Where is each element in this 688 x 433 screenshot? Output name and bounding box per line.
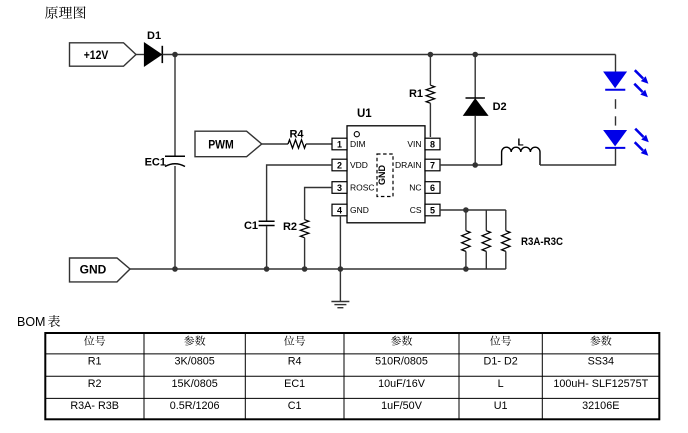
svg-text:R2: R2 <box>88 378 102 390</box>
svg-text:GND: GND <box>377 165 387 186</box>
wire left rail upper <box>174 55 176 157</box>
svg-text:VDD: VDD <box>350 160 368 170</box>
svg-text:GND: GND <box>80 263 107 277</box>
BOM table grid <box>45 333 659 419</box>
U1 pin 7 DRAIN <box>395 159 440 171</box>
svg-text:CS: CS <box>410 205 422 215</box>
svg-text:100uH- SLF12575T: 100uH- SLF12575T <box>553 378 648 390</box>
svg-text:5: 5 <box>430 206 435 216</box>
wire PWM to R4 <box>262 143 288 145</box>
svg-text:DRAIN: DRAIN <box>395 160 421 170</box>
BOM table label <box>17 315 60 329</box>
svg-text:10uF/16V: 10uF/16V <box>378 378 426 390</box>
node D2/drain line <box>472 162 478 168</box>
svg-text:D2: D2 <box>493 101 507 113</box>
LED D-string bottom (blue) <box>603 130 627 148</box>
LED1 emission arrows <box>633 69 648 97</box>
wire top rail <box>162 54 615 56</box>
node pin4/ground bus <box>338 266 344 272</box>
wire +12V to D1 <box>136 54 144 56</box>
node R3A/ground bus <box>463 266 469 272</box>
wire rail to D2 <box>474 55 476 99</box>
svg-text:PWM: PWM <box>208 138 234 152</box>
dashed wire LED string <box>615 99 617 125</box>
U1 pin 6 NC <box>409 182 440 194</box>
wire D2 to drain line <box>474 115 476 165</box>
svg-text:D1- D2: D1- D2 <box>484 356 518 368</box>
svg-text:C1: C1 <box>244 220 258 232</box>
svg-text:EC1: EC1 <box>284 378 305 390</box>
svg-text:L: L <box>517 138 523 149</box>
U1 pin 8 VIN <box>407 138 440 150</box>
resistor R3B <box>482 210 490 269</box>
svg-text:1uF/50V: 1uF/50V <box>381 400 423 412</box>
diode D1 <box>144 30 162 66</box>
node C1/ground bus <box>264 266 270 272</box>
wire pin 7 drain line <box>440 164 502 166</box>
svg-text:R3A-R3C: R3A-R3C <box>521 236 563 248</box>
svg-text:8: 8 <box>430 140 435 150</box>
wire rail to R1 <box>429 55 431 86</box>
svg-text:3K/0805: 3K/0805 <box>175 356 215 368</box>
resistor R1 <box>409 85 435 103</box>
wire pin 5 CS to R3 bank <box>440 209 506 211</box>
ground symbol <box>331 269 349 308</box>
node EC1/ground bus <box>172 266 178 272</box>
BOM header cells <box>84 336 612 346</box>
svg-text:1: 1 <box>337 140 342 150</box>
capacitor EC1 <box>145 156 185 168</box>
resistor R2 <box>283 220 309 238</box>
svg-text:R1: R1 <box>88 356 102 368</box>
svg-text:U1: U1 <box>494 400 508 412</box>
inductor L <box>502 138 540 165</box>
title 原理图 <box>45 6 86 19</box>
op-amp/IC U1 body <box>347 108 425 223</box>
LED D-string top (blue) <box>603 72 627 90</box>
wire ground bus <box>130 268 506 270</box>
wire R2 to ground bus <box>304 238 306 269</box>
svg-text:L: L <box>498 378 504 390</box>
svg-text:ROSC: ROSC <box>350 183 375 193</box>
net flag GND <box>70 258 131 282</box>
node CS/R3A <box>463 207 469 213</box>
wire R1 to pin 8 <box>429 103 431 137</box>
svg-text:R3A- R3B: R3A- R3B <box>70 400 119 412</box>
U1 pin 5 CS <box>410 204 440 216</box>
svg-text:2: 2 <box>337 161 342 171</box>
U1 pin 2 VDD <box>332 159 368 171</box>
svg-text:U1: U1 <box>357 108 372 120</box>
wire pin 3 to R2 <box>305 188 332 220</box>
net flag +12V <box>70 43 137 66</box>
svg-text:+12V: +12V <box>84 48 109 62</box>
svg-text:BOM: BOM <box>17 315 45 329</box>
svg-text:7: 7 <box>430 161 435 171</box>
node D2/top rail <box>472 52 478 58</box>
wire pin 2 to C1 <box>267 165 332 221</box>
svg-text:15K/0805: 15K/0805 <box>172 378 218 390</box>
svg-text:R2: R2 <box>283 221 297 233</box>
svg-text:32106E: 32106E <box>582 400 619 412</box>
svg-text:EC1: EC1 <box>145 157 166 169</box>
svg-text:VIN: VIN <box>407 139 421 149</box>
net flag PWM <box>195 131 262 157</box>
wire rail to LED1 anode <box>615 55 617 72</box>
wire C1 to ground bus <box>266 226 268 269</box>
svg-text:GND: GND <box>350 205 369 215</box>
svg-text:6: 6 <box>430 183 435 193</box>
node R2/ground bus <box>302 266 308 272</box>
svg-text:NC: NC <box>409 183 421 193</box>
wire R4 to pin 1 <box>306 143 332 145</box>
svg-text:R4: R4 <box>289 129 304 141</box>
wire inductor to LED string <box>540 148 616 165</box>
diode D2 <box>464 98 507 115</box>
U1 pin 4 GND <box>332 204 369 216</box>
svg-text:4: 4 <box>337 206 342 216</box>
svg-text:DIM: DIM <box>350 139 366 149</box>
LED2 emission arrows <box>634 128 649 156</box>
svg-text:C1: C1 <box>288 400 302 412</box>
BOM data cells <box>70 356 648 413</box>
node R1/top rail <box>428 52 434 58</box>
wire left rail lower <box>174 166 176 269</box>
svg-text:510R/0805: 510R/0805 <box>375 356 428 368</box>
capacitor C1 <box>244 220 275 232</box>
resistor R3A <box>462 210 470 269</box>
svg-text:0.5R/1206: 0.5R/1206 <box>170 400 220 412</box>
node junction D1/EC1 <box>172 52 178 58</box>
resistor R3C <box>502 210 510 269</box>
svg-text:R4: R4 <box>288 356 302 368</box>
U1 internal GND pad (dashed) <box>377 154 393 197</box>
U1 pin 1 DIM <box>332 138 366 150</box>
svg-text:3: 3 <box>337 183 342 193</box>
svg-text:SS34: SS34 <box>588 356 614 368</box>
svg-text:R1: R1 <box>409 88 423 100</box>
wire pin 4 to ground bus <box>339 216 341 269</box>
resistor R4 <box>288 129 306 149</box>
U1 pin 3 ROSC <box>332 182 375 194</box>
svg-text:D1: D1 <box>147 30 161 42</box>
